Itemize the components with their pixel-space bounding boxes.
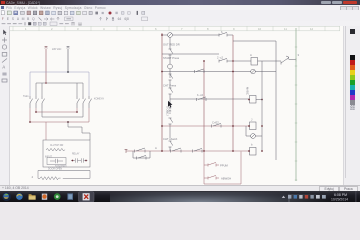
node junction L2-bus [67,71,69,73]
green page border right [295,28,297,181]
node terminal bottom left [125,149,128,153]
taskbar [0,191,360,203]
node rung71 x233 [232,71,234,73]
resistor R2 heater [38,171,61,180]
motor symbol M1 small [168,57,173,69]
contact S5 [169,118,173,138]
wire branch return [204,152,241,185]
node L2 terminal [67,47,70,49]
wire top rung right [172,34,219,36]
wire heater return [63,171,90,179]
svg-text:+ 160, 4 OB 2014: + 160, 4 OB 2014 [2,186,29,190]
node coil3 right [261,125,263,127]
contact S10 disconnect [135,148,146,153]
wire branch down2 [204,165,208,178]
svg-text:CLUTCH DR: CLUTCH DR [50,145,64,147]
toolbar row 2 [0,16,360,22]
machine box M1 [43,140,90,167]
contactor KM2 pole 3 [89,96,92,108]
relay box inner [47,158,66,165]
contactor KM2 pole 1 [77,96,80,108]
wire box right [275,41,277,160]
wire to switch [263,60,282,62]
coil K2 [250,96,263,104]
svg-text:MABC: MABC [246,87,250,95]
capacitor C1 [50,159,63,163]
wire bypass loop [133,151,150,158]
svg-text:START Press: START Press [163,56,180,60]
contact S7 rung61 [219,58,251,62]
node branch x206 [203,150,205,152]
contact S8 rung99 [197,97,207,101]
contact S6 [169,141,173,151]
wire bottom rung [126,150,249,152]
wire right pin chain [261,61,263,151]
svg-text:b: b [251,143,253,147]
svg-text:4: 4 [32,175,34,179]
node relay pin right [85,160,87,162]
node coil4 right [261,150,263,152]
page ruler strip [9,26,340,31]
node rung61 x204 [203,60,205,62]
node rail bottom [161,150,163,152]
node rung61 x233 [232,60,234,62]
contactor KM1 pole 2 [36,96,39,108]
node junction x77 [76,111,78,113]
svg-text:10/29/2014: 10/29/2014 [331,197,348,201]
right palette strip [343,26,360,185]
node coil4 left [248,150,250,152]
node coil2 left [248,99,250,101]
svg-text:DOOR OPEN: DOOR OPEN [48,169,62,171]
wire rung y126 [162,125,249,127]
wire rail left red [161,33,163,151]
node coil2 right [261,99,263,101]
status bar [0,185,360,192]
heater element E1 [169,104,171,114]
contact S14 ABWOH [208,175,219,179]
menu bar [0,5,360,12]
contactor KM1 pole 3 [42,96,45,108]
contact S1 top rung [219,32,233,36]
wire crossover dark [42,108,83,117]
wire rung y99 [170,98,249,100]
node junction x46 step [67,121,69,123]
contact S12 [193,148,203,152]
svg-text:b -c2: b -c2 [197,93,203,97]
svg-text:A: A [250,53,252,57]
svg-text:C+E2: C+E2 [212,121,219,125]
wire motor feed red [45,122,47,140]
node relay pin left [72,160,74,162]
svg-text:A: A [155,146,157,150]
mouse cursor [168,101,172,108]
contact S16 bypass [137,155,147,159]
wire box top [233,40,276,42]
wire crossover red upper [36,108,77,112]
switch Q1 [281,56,296,65]
node rail y126 [161,125,163,127]
node rung126 x233 [232,125,234,127]
svg-text:6:08 PM: 6:08 PM [334,193,347,197]
wire heater top [38,170,90,172]
wire dark bus mid [36,83,83,96]
wire step path to box [68,122,90,140]
contact S9 rung126 [212,123,222,127]
svg-text:J: J [251,118,253,122]
canvas background [9,26,343,185]
svg-text:CHT Press: CHT Press [163,84,177,88]
wire purple bus top [30,72,89,96]
wire L1 red vertical [45,49,47,84]
coil K1 [251,58,263,66]
svg-text:CHT Abwoh: CHT Abwoh [163,137,178,141]
wire feed x42 [41,83,43,96]
contact S15 [195,69,205,73]
wire string mid [169,69,171,78]
toolbar row 1 [0,10,360,16]
title bar [0,0,360,5]
wire rung y54 [162,53,219,55]
svg-text:RELAY: RELAY [72,153,80,156]
node L1 terminal [45,47,48,49]
node junction x30 [29,121,31,123]
wire top rung left [162,34,168,36]
wire crossover red lower [30,108,89,122]
capacitor C3 [82,158,88,162]
svg-text:b: b [221,30,223,34]
svg-text:Trafo: Trafo [23,95,29,98]
left tool strip [0,26,10,185]
svg-text:S OBEJ: S OBEJ [166,106,170,116]
wire branch down [204,151,208,165]
green border ticks [295,47,297,180]
node rail y71.5 [161,71,163,73]
contactor KM1 pole 1 [30,96,33,108]
svg-text:3: 3 [298,53,300,57]
toolbar row 3 [0,21,360,26]
node coil3 left [248,125,250,127]
contact S4 [169,88,173,104]
node junction x36 [35,111,37,113]
lamp H1 [168,33,173,38]
node bottom x233 [232,150,234,152]
contact S11 [171,148,182,153]
node junction L1-bus [45,82,47,84]
coil K3 [250,122,257,130]
capacitor C2 [71,158,81,162]
wire branch v246 [246,126,251,136]
wire L2 dark vertical [67,49,69,73]
wire feed x77 [76,83,78,96]
svg-text:OUT RED DR: OUT RED DR [163,43,180,47]
svg-text:ABWOH: ABWOH [221,177,231,181]
contactor KM2 pole 2 [83,96,86,108]
wire rail x233 red [232,35,234,151]
svg-text:2 -c2: 2 -c2 [217,56,223,60]
svg-text:PPUM: PPUM [220,164,229,168]
svg-text:KOHEYA: KOHEYA [94,98,104,101]
svg-text:220 VAC: 220 VAC [52,48,62,51]
lamp H2 [162,69,276,74]
node terminal right [295,58,297,62]
wire rail mid red [203,61,205,151]
coil K4 [250,148,257,156]
contact S2 start [169,49,173,57]
lamp H3 [251,134,262,139]
contact S13 PPUM [208,162,219,166]
resistor R1 clutch coil [46,148,65,151]
contact S3 [169,74,173,88]
wire string upper [169,37,171,49]
node rail top [161,34,163,36]
